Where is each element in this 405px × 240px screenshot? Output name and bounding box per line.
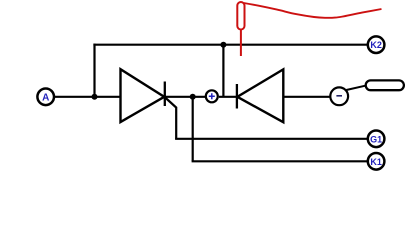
minus sign (336, 95, 342, 97)
wire top rail to K2 (93, 44, 367, 46)
wire gate of V1 to terminal G1 (175, 138, 367, 140)
shunt resistor R1 capsule (366, 80, 404, 90)
wire A to thyristor V1 anode (55, 96, 121, 98)
wire vertical riser from node on A wire to top rail (93, 44, 95, 97)
thyristor V1 triangle (121, 69, 165, 122)
terminal A circle (37, 89, 54, 106)
wire drop from top rail to cathode node of V2 (222, 45, 224, 97)
svg-text:K1: K1 (370, 157, 382, 167)
lead minus probe to shunt R1 (346, 85, 367, 90)
junction dot on A wire (92, 94, 98, 100)
svg-text:G1: G1 (370, 134, 382, 144)
thyristor V1 cathode bar (164, 82, 166, 107)
plus sign (209, 93, 215, 99)
terminal K1 circle (368, 153, 385, 170)
wire plus probe to thyristor V2 cathode (219, 96, 237, 98)
junction dot on V1 cathode wire (190, 94, 196, 100)
probe circle plus (206, 90, 218, 102)
wire V2 anode to minus probe (283, 96, 330, 98)
terminal K2 circle (368, 36, 385, 53)
svg-text:K2: K2 (370, 40, 382, 50)
fuse F1 red lower lead (240, 30, 242, 57)
terminal G1 circle (368, 131, 385, 148)
thyristor V2 cathode bar (236, 84, 238, 109)
thyristor V1 gate lead diagonal (165, 97, 177, 139)
svg-text:A: A (42, 92, 49, 103)
probe circle minus (330, 87, 348, 105)
red flexible wire from fuse top (244, 3, 382, 18)
wire V1 cathode to plus probe (165, 96, 206, 98)
thyristor V2 triangle (237, 69, 283, 122)
wire cathode node to terminal K1 (192, 160, 368, 162)
junction dot on top rail (220, 42, 226, 48)
fuse F1 red capsule (237, 2, 244, 30)
wire cathode node down (192, 97, 194, 162)
